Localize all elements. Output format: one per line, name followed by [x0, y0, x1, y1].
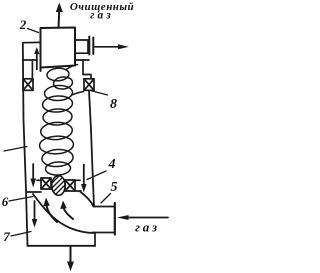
- inlet pipe 5 top wall: [94, 206, 115, 208]
- inlet pipe end flange: [114, 203, 116, 235]
- svg-text:8: 8: [110, 97, 117, 112]
- leader line for label 7: [11, 232, 31, 237]
- nozzle stub on drum right: [75, 40, 88, 53]
- svg-text:5: 5: [111, 180, 118, 195]
- svg-text:газ: газ: [90, 10, 113, 22]
- flange bars: [89, 37, 93, 55]
- wire arrow down (upper left): [30, 164, 36, 188]
- leader line for label 1 (cut off): [4, 147, 27, 152]
- leader line for label 4: [87, 171, 106, 180]
- left channel lower wall: [23, 59, 37, 61]
- left channel inner wall: [31, 60, 33, 79]
- leader line for label 5: [101, 194, 111, 204]
- leader line for label 8: [91, 91, 108, 96]
- left outer wall: [23, 43, 28, 246]
- svg-text:6: 6: [2, 194, 9, 209]
- inlet pipe bottom wall: [92, 232, 115, 234]
- valve (left crossed box): [23, 79, 33, 91]
- flow arrow curved A: [43, 198, 57, 223]
- leader line for label 6: [9, 197, 33, 202]
- elbow outer wall 7: [33, 194, 94, 233]
- right outer wall: [89, 90, 94, 206]
- wire arrow down (upper right): [81, 165, 87, 193]
- wire arrow up into drum (left): [34, 47, 39, 70]
- left channel top wall: [23, 41, 41, 43]
- wire outlet arrow (purified gas, up): [56, 3, 63, 28]
- wire drain arrow (bottom, down): [67, 246, 74, 271]
- svg-text:газ: газ: [135, 220, 160, 235]
- wire arrow down (lower left): [32, 201, 38, 228]
- node: text Очищенный газ: [70, 1, 134, 22]
- separator drum 2 (top box): [41, 28, 76, 72]
- elbow inner wall: [80, 192, 94, 207]
- coil (spiral insert): [39, 65, 83, 176]
- wire gas inlet arrow (right, leftward): [117, 215, 168, 220]
- rotor 4 (hatched ellipse): [48, 171, 72, 208]
- rotor mount plates: [27, 180, 81, 192]
- right channel step: [83, 60, 91, 79]
- valve (right crossed box): [84, 79, 94, 91]
- flow arrow curved B: [60, 201, 73, 220]
- rotor bearing left (crossed square): [41, 178, 51, 189]
- riser from pipe to vessel bottom: [94, 233, 96, 247]
- svg-text:2: 2: [19, 17, 27, 32]
- leader line for label 2: [28, 29, 39, 33]
- rotor bearing right (crossed square): [65, 180, 75, 191]
- vessel bottom wall: [28, 245, 96, 247]
- right channel top wall: [75, 59, 89, 61]
- svg-text:4: 4: [108, 157, 116, 172]
- wire arrow right (drum outlet): [95, 44, 129, 49]
- svg-text:7: 7: [3, 229, 10, 244]
